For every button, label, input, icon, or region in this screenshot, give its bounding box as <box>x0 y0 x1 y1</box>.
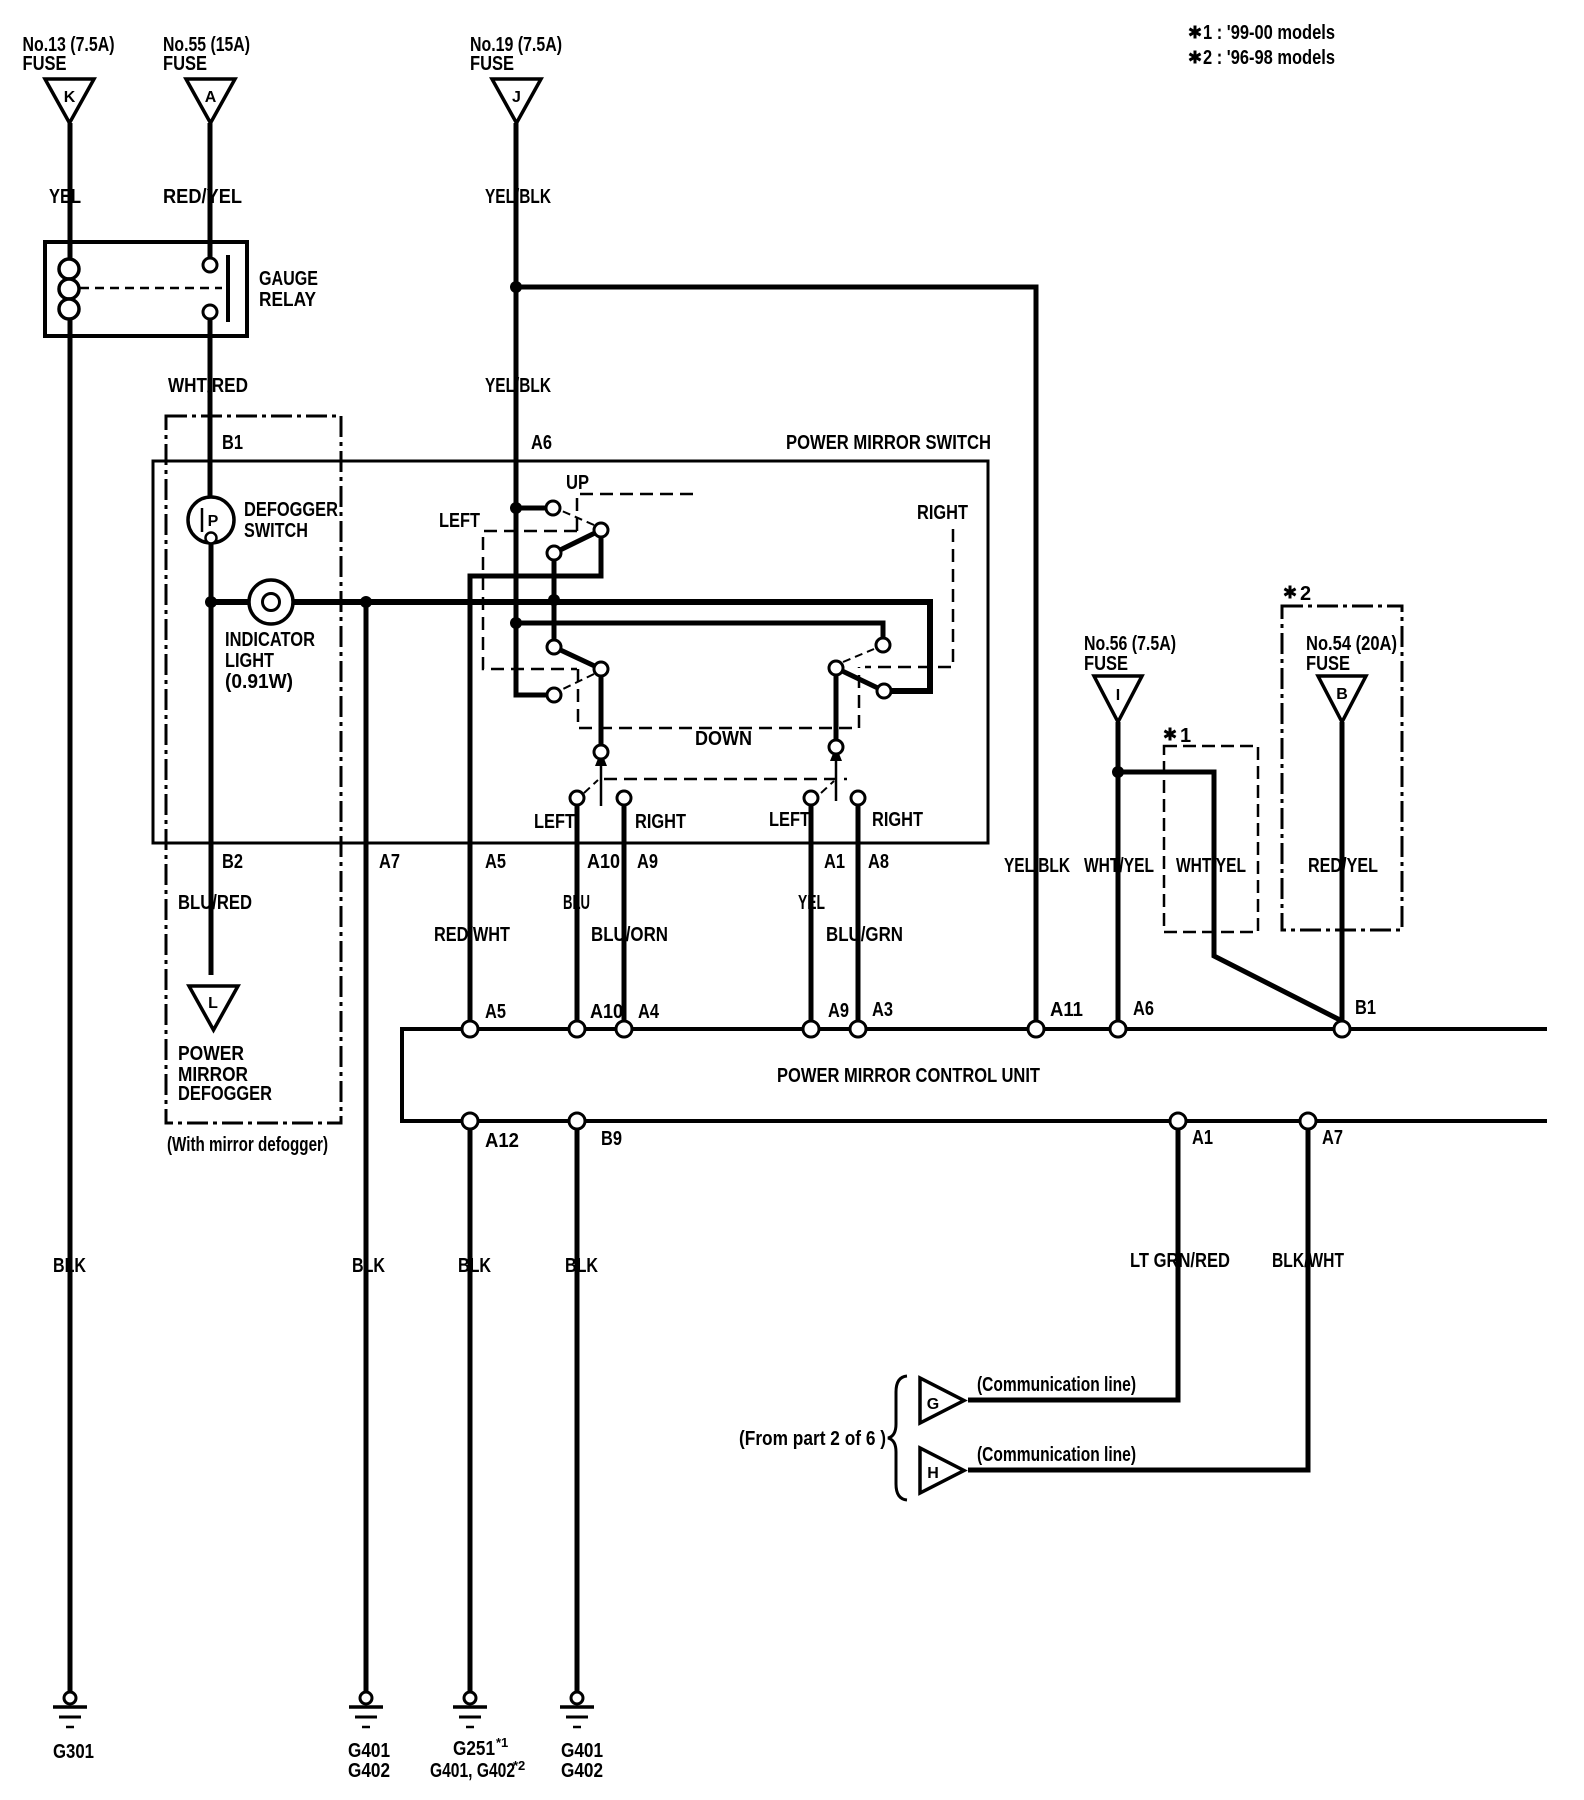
svg-text:RED/YEL: RED/YEL <box>163 186 242 208</box>
svg-text:A3: A3 <box>872 999 893 1021</box>
svg-text:G401: G401 <box>348 1740 390 1762</box>
svg-text:SWITCH: SWITCH <box>244 520 308 542</box>
svg-text:No.56 (7.5A): No.56 (7.5A) <box>1084 633 1176 655</box>
svg-text:A5: A5 <box>485 851 506 873</box>
svg-text:B: B <box>1336 686 1348 703</box>
svg-text:RIGHT: RIGHT <box>917 502 968 524</box>
svg-text:A9: A9 <box>828 1000 849 1022</box>
svg-text:1: 1 <box>1180 725 1191 747</box>
svg-text:No.54 (20A): No.54 (20A) <box>1306 633 1397 655</box>
svg-text:FUSE: FUSE <box>163 53 207 75</box>
svg-text:UP: UP <box>566 472 589 494</box>
svg-text:B1: B1 <box>222 432 243 454</box>
svg-text:A7: A7 <box>1322 1127 1343 1149</box>
svg-text:YEL: YEL <box>49 186 81 208</box>
svg-text:1 : '99-00 models: 1 : '99-00 models <box>1203 22 1335 44</box>
svg-text:POWER MIRROR SWITCH: POWER MIRROR SWITCH <box>786 432 991 454</box>
svg-text:LEFT: LEFT <box>534 811 575 833</box>
svg-text:B9: B9 <box>601 1128 622 1150</box>
svg-text:K: K <box>64 89 76 106</box>
svg-text:LEFT: LEFT <box>769 809 810 831</box>
svg-text:A6: A6 <box>1133 998 1154 1020</box>
svg-text:FUSE: FUSE <box>1084 653 1128 675</box>
svg-text:(From part 2 of 6 ): (From part 2 of 6 ) <box>739 1428 886 1450</box>
svg-text:BLU/GRN: BLU/GRN <box>826 924 903 946</box>
svg-text:A8: A8 <box>868 851 889 873</box>
svg-text:BLU: BLU <box>563 892 590 914</box>
svg-text:RIGHT: RIGHT <box>635 811 686 833</box>
svg-text:B2: B2 <box>222 851 243 873</box>
svg-text:BLK/WHT: BLK/WHT <box>1272 1250 1344 1272</box>
svg-text:DEFOGGER: DEFOGGER <box>178 1083 272 1105</box>
svg-text:A9: A9 <box>637 851 658 873</box>
svg-text:FUSE: FUSE <box>1306 653 1350 675</box>
svg-text:A11: A11 <box>1050 999 1083 1021</box>
svg-text:*2: *2 <box>513 1758 525 1773</box>
svg-text:DOWN: DOWN <box>695 728 752 750</box>
svg-text:A6: A6 <box>531 432 552 454</box>
svg-text:LEFT: LEFT <box>439 510 480 532</box>
svg-text:LT GRN/RED: LT GRN/RED <box>1130 1250 1230 1272</box>
svg-text:J: J <box>512 89 521 106</box>
svg-text:(With mirror defogger): (With mirror defogger) <box>167 1134 328 1156</box>
svg-text:YEL/BLK: YEL/BLK <box>485 375 551 397</box>
svg-text:A7: A7 <box>379 851 400 873</box>
svg-text:A12: A12 <box>485 1130 519 1152</box>
svg-text:A10: A10 <box>590 1001 623 1023</box>
svg-text:G251: G251 <box>453 1738 495 1760</box>
svg-text:RELAY: RELAY <box>259 289 317 311</box>
svg-text:A1: A1 <box>1192 1127 1213 1149</box>
svg-text:WHT/YEL: WHT/YEL <box>1176 855 1246 877</box>
svg-text:P: P <box>208 513 219 530</box>
svg-text:RED/YEL: RED/YEL <box>1308 855 1378 877</box>
svg-text:(0.91W): (0.91W) <box>225 671 293 693</box>
svg-text:*1: *1 <box>496 1735 508 1750</box>
svg-text:H: H <box>927 1465 939 1482</box>
svg-text:A10: A10 <box>587 851 620 873</box>
svg-text:BLK: BLK <box>53 1255 86 1277</box>
svg-text:L: L <box>208 995 218 1012</box>
svg-text:G402: G402 <box>348 1760 390 1782</box>
svg-text:DEFOGGER: DEFOGGER <box>244 499 338 521</box>
svg-text:RIGHT: RIGHT <box>872 809 923 831</box>
svg-text:WHT/RED: WHT/RED <box>168 375 248 397</box>
svg-text:WHT/YEL: WHT/YEL <box>1084 855 1154 877</box>
svg-text:I: I <box>1116 687 1120 704</box>
svg-text:POWER: POWER <box>178 1043 244 1065</box>
svg-text:G401, G402: G401, G402 <box>430 1760 515 1782</box>
svg-text:POWER MIRROR CONTROL UNIT: POWER MIRROR CONTROL UNIT <box>777 1065 1040 1087</box>
svg-text:B1: B1 <box>1355 997 1376 1019</box>
svg-text:BLU/ORN: BLU/ORN <box>591 924 668 946</box>
svg-text:2: 2 <box>1300 583 1311 605</box>
svg-text:LIGHT: LIGHT <box>225 650 274 672</box>
svg-text:G: G <box>927 1396 939 1413</box>
svg-text:A1: A1 <box>824 851 845 873</box>
svg-text:(Communication line): (Communication line) <box>977 1444 1136 1466</box>
svg-text:BLK: BLK <box>565 1255 598 1277</box>
svg-text:RED/WHT: RED/WHT <box>434 924 510 946</box>
svg-text:G401: G401 <box>561 1740 603 1762</box>
svg-text:YEL: YEL <box>798 892 825 914</box>
svg-text:FUSE: FUSE <box>470 53 514 75</box>
svg-text:A5: A5 <box>485 1001 506 1023</box>
svg-text:INDICATOR: INDICATOR <box>225 629 315 651</box>
svg-text:GAUGE: GAUGE <box>259 268 318 290</box>
svg-text:A4: A4 <box>638 1001 660 1023</box>
svg-text:A: A <box>205 89 217 106</box>
svg-text:YEL/BLK: YEL/BLK <box>485 186 551 208</box>
svg-text:BLU/RED: BLU/RED <box>178 892 252 914</box>
svg-text:BLK: BLK <box>352 1255 385 1277</box>
svg-text:BLK: BLK <box>458 1255 491 1277</box>
svg-text:YEL/BLK: YEL/BLK <box>1004 855 1070 877</box>
svg-text:FUSE: FUSE <box>23 53 67 75</box>
svg-text:2 : '96-98 models: 2 : '96-98 models <box>1203 47 1335 69</box>
svg-text:(Communication line): (Communication line) <box>977 1374 1136 1396</box>
svg-text:G301: G301 <box>53 1741 94 1763</box>
svg-text:G402: G402 <box>561 1760 603 1782</box>
